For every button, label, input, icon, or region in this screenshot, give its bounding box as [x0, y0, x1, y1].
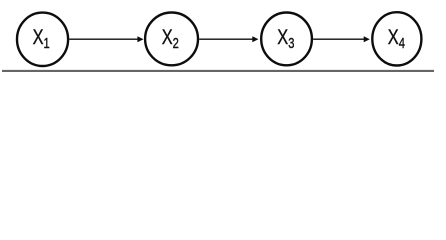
node X4 circle — [372, 12, 421, 65]
node X1 circle — [17, 13, 68, 66]
wire arrow X3 to X4 — [313, 38, 364, 40]
baseline gray rule — [2, 70, 434, 72]
wire arrow X2 to X3 — [199, 38, 253, 40]
node X3 circle — [261, 13, 312, 66]
wire arrow X1 to X2 — [69, 38, 138, 40]
node X2 circle — [145, 13, 198, 66]
